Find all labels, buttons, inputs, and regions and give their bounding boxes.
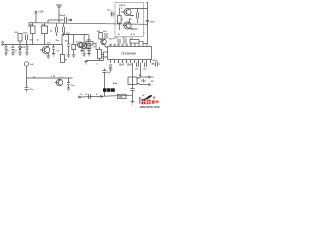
IC top pin stubs (111, 44, 147, 47)
watermark red char 2 (147, 100, 151, 105)
label 15nF bold B (127, 64, 133, 67)
capacitor C18 left of box (107, 10, 115, 17)
svg-text:10μF: 10μF (150, 21, 155, 23)
bold label block (103, 88, 115, 92)
capacitor C17 in box (137, 9, 139, 24)
svg-text:R7: R7 (33, 77, 35, 79)
resistor R9 vertical pre-IC (98, 47, 102, 61)
svg-text:15nF: 15nF (119, 64, 125, 67)
ground under C10 (67, 55, 70, 58)
node IN input (2, 41, 5, 45)
svg-text:S9014: S9014 (119, 4, 126, 7)
transistor Q4 (123, 8, 131, 15)
ground under R5 (72, 55, 75, 58)
watermark red char 1 (142, 100, 146, 105)
watermark red tip mark (153, 97, 155, 99)
capacitor C5 (5, 45, 8, 54)
resistor R1 56k (30, 23, 36, 45)
transistor Q1 (40, 45, 50, 57)
capacitor C23 riser (103, 69, 112, 97)
capacitor C22 on bus (80, 94, 91, 99)
wire mic down (26, 66, 28, 87)
capacitor C15 below IC (143, 63, 147, 71)
ground under C13 (109, 69, 112, 72)
wire box internals (121, 9, 143, 30)
ground under C27 (87, 54, 90, 57)
ground shared (82, 54, 85, 57)
transistor Q5 (123, 22, 131, 29)
capacitor C12 above IC (122, 38, 127, 44)
resistor R11 in box (118, 8, 122, 31)
capacitor C14 below IC (135, 63, 139, 71)
label below box (109, 39, 114, 41)
capacitor C2 (50, 23, 58, 36)
wire right output exit (152, 63, 161, 64)
resistor R2 4.7k (42, 23, 48, 45)
IC bottom pin stubs (111, 60, 151, 64)
wire pin9 down (140, 63, 142, 77)
ground bottom right riser (131, 102, 134, 105)
resistor R8 horizontal (83, 40, 97, 50)
ground under C21 (67, 88, 70, 91)
capacitor C19 right rail (146, 20, 156, 23)
svg-text:100μF: 100μF (59, 15, 66, 17)
svg-text:WWW.DZSC.COM: WWW.DZSC.COM (140, 106, 160, 109)
node +12V supply arrow (35, 11, 44, 24)
transistor Q6 (76, 42, 83, 51)
capacitor C21 (67, 78, 75, 88)
ground left of bus (84, 61, 87, 65)
wire mid input bus (3, 44, 63, 46)
resistor R4 vertical (61, 45, 65, 63)
node antenna/top terminal (56, 5, 62, 23)
resistor R3 47k (15, 31, 23, 45)
capacitor C24 on riser (131, 88, 135, 102)
wire top-right feed (139, 23, 148, 44)
wire pin7 down (132, 63, 134, 88)
watermark vertical stroke (138, 97, 141, 104)
microphone BM (24, 62, 34, 66)
capacitor C13 below IC (109, 65, 112, 69)
ground under VD1 (18, 53, 21, 56)
watermark red char 3 (152, 100, 155, 103)
svg-text:15nF: 15nF (127, 64, 133, 67)
ground under Q6 (80, 51, 83, 54)
watermark red url text (140, 106, 160, 109)
svg-text:47k: 47k (118, 96, 123, 99)
wire top power bus (29, 23, 148, 27)
label in box bottom (118, 33, 136, 36)
label 100k (113, 83, 118, 85)
wire IC left pin 1 (104, 51, 108, 53)
terminal J1 (141, 76, 151, 78)
capacitor C6 polarized (10, 45, 15, 54)
wire bottom-left bus (27, 77, 73, 79)
ground under C8 (52, 54, 55, 57)
transistor subcircuit box top-right (115, 3, 144, 37)
svg-text:470μ: 470μ (153, 59, 158, 62)
watermark logo swoosh (140, 95, 153, 100)
svg-text:100n: 100n (122, 38, 127, 40)
capacitor C11 above IC (114, 38, 120, 44)
wire bottom middle bus (79, 95, 133, 98)
capacitor C1 100u (59, 15, 72, 23)
resistor R10 above IC (130, 37, 139, 43)
diode VD1 (19, 45, 22, 54)
terminal J2 (141, 84, 151, 86)
ground under C5 (4, 53, 7, 56)
resistor R6 (87, 35, 91, 55)
svg-text:100n: 100n (23, 33, 28, 35)
label 15nF bold A (119, 64, 125, 67)
svg-text:+12V: +12V (38, 11, 44, 14)
svg-text:10: 10 (125, 44, 127, 46)
label C9 value (64, 32, 70, 35)
svg-text:C9: C9 (85, 94, 87, 96)
capacitor C8 (52, 45, 55, 54)
capacitor C7 (26, 45, 29, 54)
component X1 box (82, 35, 86, 55)
ground under Q1 (47, 56, 51, 59)
transistor Q3 (55, 78, 63, 86)
resistor R5 (72, 35, 76, 56)
svg-text:HI-FI: HI-FI (109, 39, 114, 41)
capacitor C10 (67, 35, 70, 56)
ground under C6 (11, 53, 14, 56)
capacitor C26 (103, 31, 107, 39)
svg-text:100n: 100n (114, 38, 119, 40)
wire second bus (62, 35, 89, 45)
capacitor C25 output (142, 79, 154, 83)
label texture small values (7, 8, 155, 96)
label 1.5k (51, 76, 56, 78)
capacitor C16 right exit (153, 59, 158, 67)
svg-text:TEA2025B: TEA2025B (121, 52, 137, 56)
transistor Q2 (101, 39, 108, 47)
svg-text:11: 11 (121, 44, 123, 46)
svg-text:4.7μF: 4.7μF (64, 32, 70, 35)
capacitor C20 mic bottom (25, 87, 35, 91)
svg-text:12: 12 (117, 44, 119, 46)
wire stub to C1 (48, 20, 70, 23)
wire box to rail (144, 2, 148, 23)
svg-text:2CP: 2CP (22, 47, 27, 49)
ground under C7 (25, 53, 28, 56)
wire under-left bus (86, 57, 104, 61)
capacitor C3 (63, 23, 65, 36)
capacitor C4 100n (23, 33, 28, 45)
capacitor C27 (87, 45, 91, 54)
svg-text:13: 13 (113, 44, 115, 46)
svg-text:9: 9 (130, 44, 131, 46)
IC pin numbers (110, 60, 144, 63)
IC U1 TEA2025B (108, 47, 152, 60)
wire IC left pin 2 (102, 52, 108, 57)
resistor R7 10k (97, 31, 103, 40)
resistor R12 47k (118, 94, 127, 99)
watermark red mark right (156, 101, 159, 104)
speaker BL (128, 77, 141, 85)
svg-text:8Ω: 8Ω (151, 81, 154, 83)
